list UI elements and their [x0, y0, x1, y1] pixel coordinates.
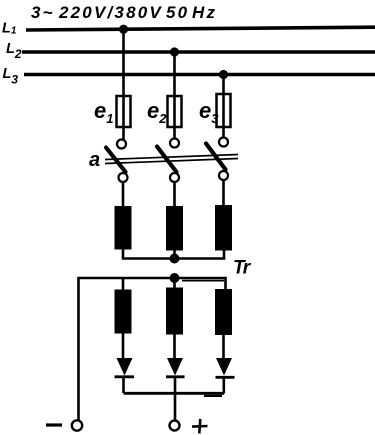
svg-text:3~220V/380V50Hz: 3~220V/380V50Hz: [31, 3, 217, 22]
svg-text:a: a: [89, 149, 100, 171]
